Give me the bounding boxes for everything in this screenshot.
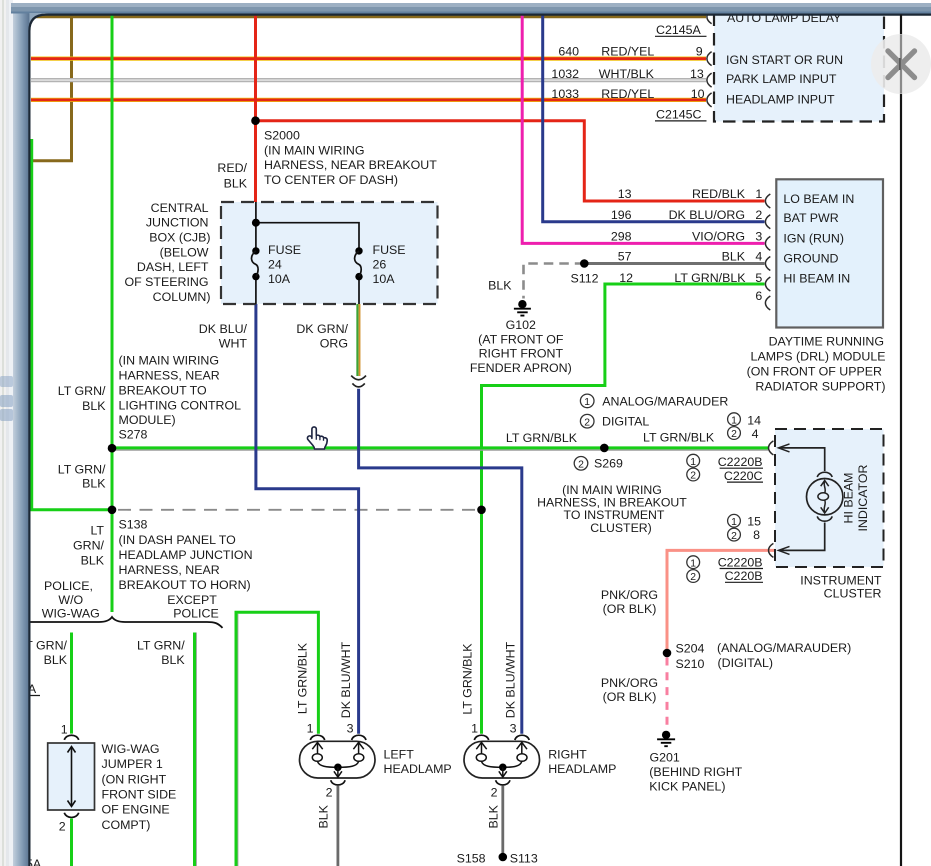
svg-text:BLK: BLK: [82, 476, 106, 490]
svg-text:WIG-WAG: WIG-WAG: [102, 742, 160, 756]
wire LT GRN/BLK wig-wag branch: [70, 633, 73, 866]
svg-text:(IN DASH PANEL TO: (IN DASH PANEL TO: [119, 533, 237, 547]
wire LT GRN/BLK to left headlamp pin 1: [236, 612, 318, 866]
wig-wag jumper pin 2: [59, 813, 79, 834]
svg-text:GRN/: GRN/: [73, 538, 105, 552]
svg-text:C220B: C220B: [725, 569, 763, 583]
svg-text:12: 12: [619, 271, 633, 285]
label WIG-WAG JUMPER note: [102, 742, 177, 832]
svg-text:1: 1: [755, 187, 762, 201]
label S204 S210: [676, 641, 852, 671]
label DK GRN/ORG: [296, 322, 348, 351]
lamp HI BEAM INDICATOR: [807, 472, 843, 521]
svg-text:DK BLU/WHT: DK BLU/WHT: [339, 641, 353, 718]
node S113: [499, 853, 508, 862]
svg-text:C2145A: C2145A: [656, 23, 702, 37]
label S138 note: [119, 518, 253, 593]
label BLK rotated left lamp: [317, 804, 331, 828]
svg-text:(BELOW: (BELOW: [160, 245, 209, 259]
svg-text:LT GRN/BLK: LT GRN/BLK: [461, 643, 475, 715]
ground G102: [514, 300, 531, 316]
label BLK rotated right lamp: [487, 804, 501, 828]
label LT GRN/BLK right of S269: [643, 431, 715, 445]
label circled 2 8: [728, 528, 760, 542]
svg-text:RADIATOR SUPPORT): RADIATOR SUPPORT): [755, 380, 885, 394]
svg-text:C2220B: C2220B: [718, 455, 763, 469]
svg-text:INSTRUMENT: INSTRUMENT: [800, 573, 882, 587]
label circled 1 14: [728, 413, 761, 427]
svg-text:S113: S113: [510, 852, 538, 866]
central junction box CJB: [221, 202, 438, 304]
label DK BLU/WHT rotated left lamp: [339, 641, 353, 718]
background window icon blobs: [0, 376, 13, 421]
label wire 13 RED/BLK 1: [618, 187, 763, 201]
svg-text:13: 13: [618, 187, 632, 201]
svg-text:RED/YEL: RED/YEL: [601, 87, 654, 101]
label EXCEPT POLICE: [167, 593, 219, 621]
label wire 12 LT GRN/BLK 5: [619, 271, 762, 285]
svg-text:6: 6: [755, 289, 762, 303]
svg-text:PNK/ORG: PNK/ORG: [601, 676, 658, 690]
svg-text:2: 2: [578, 460, 584, 471]
cluster entry connector arcs: [769, 441, 774, 558]
svg-text:S138: S138: [119, 518, 148, 532]
svg-text:LT GRN/BLK: LT GRN/BLK: [643, 431, 715, 445]
window frame left bar: [13, 3, 30, 866]
wire PNK/ORG from instrument cluster: [667, 550, 777, 729]
svg-text:2: 2: [690, 572, 696, 583]
left headlamp pin 2 arc: [326, 780, 346, 799]
svg-text:INDICATOR: INDICATOR: [856, 464, 870, 531]
wire BLK right headlamp pin 2: [501, 786, 504, 857]
svg-text:LT GRN/BLK: LT GRN/BLK: [674, 271, 746, 285]
label LT GRN/BLK except police branch: [137, 639, 185, 668]
svg-text:1: 1: [307, 722, 314, 736]
label HI BEAM INDICATOR: [842, 464, 870, 531]
wire 1033 RED/YEL: [31, 98, 706, 102]
label connector 5A upper: [20, 682, 40, 696]
label G201 note: [649, 750, 742, 793]
svg-text:57: 57: [618, 250, 632, 264]
svg-text:COLUMN): COLUMN): [153, 290, 211, 304]
svg-text:(ON RIGHT: (ON RIGHT: [102, 772, 167, 786]
label LEFT HEADLAMP: [384, 748, 452, 777]
label DK BLU/WHT rotated right lamp: [504, 641, 518, 718]
wire DK GRN/ORG below fuse 26: [357, 304, 359, 376]
svg-text:9: 9: [696, 44, 703, 58]
svg-text:BLK: BLK: [81, 553, 105, 567]
svg-text:15: 15: [747, 515, 761, 529]
svg-text:FUSE: FUSE: [373, 243, 406, 257]
label LT GRN/BLK below S278: [58, 463, 106, 491]
svg-text:BLK: BLK: [487, 804, 501, 828]
svg-text:8: 8: [753, 528, 760, 542]
svg-text:(ON FRONT OF UPPER: (ON FRONT OF UPPER: [747, 364, 882, 378]
svg-text:S210: S210: [676, 657, 705, 671]
svg-text:LT GRN/: LT GRN/: [58, 463, 106, 477]
DRL module box: [776, 179, 883, 327]
wire 298 VIO/ORG to DRL pin 3: [522, 14, 764, 243]
svg-text:3: 3: [755, 230, 762, 244]
svg-text:3: 3: [347, 722, 354, 736]
window frame top bar: [11, 3, 931, 14]
svg-text:(IN MAIN WIRING: (IN MAIN WIRING: [264, 143, 365, 157]
svg-text:BLK: BLK: [224, 176, 248, 190]
svg-text:TO CENTER OF DASH): TO CENTER OF DASH): [264, 173, 398, 187]
DRL pin connector arcs: [765, 194, 770, 310]
svg-text:2: 2: [584, 417, 590, 428]
svg-text:DIGITAL: DIGITAL: [602, 415, 649, 429]
svg-text:26: 26: [373, 258, 387, 272]
svg-text:(AT FRONT OF: (AT FRONT OF: [478, 332, 564, 346]
svg-text:HEADLAMP JUNCTION: HEADLAMP JUNCTION: [119, 548, 253, 562]
label pin 6: [755, 289, 762, 303]
svg-text:PARK LAMP INPUT: PARK LAMP INPUT: [726, 72, 837, 86]
svg-text:G102: G102: [506, 318, 536, 332]
svg-text:BLK: BLK: [44, 653, 68, 667]
wire inside cluster to indicator: [779, 444, 825, 555]
connector C2145 box AUTO LAMP DELAY: [714, 14, 884, 122]
svg-text:196: 196: [611, 208, 632, 222]
wire split brace: [24, 617, 223, 628]
svg-text:LT GRN/: LT GRN/: [58, 384, 106, 398]
svg-text:2: 2: [755, 208, 762, 222]
label LT GRN/BLK below S138: [73, 523, 105, 567]
svg-text:LT GRN/BLK: LT GRN/BLK: [296, 642, 310, 714]
wire 12 LT GRN/BLK DRL pin 5 to right headlamp: [482, 284, 765, 734]
svg-text:FRONT SIDE: FRONT SIDE: [102, 788, 177, 802]
svg-text:HARNESS, NEAR BREAKOUT: HARNESS, NEAR BREAKOUT: [264, 158, 437, 172]
wire RED/BLK from S2000 to DRL pin 1: [256, 121, 765, 201]
svg-text:4: 4: [755, 250, 762, 264]
fuse F24: [251, 243, 301, 286]
connector arcs at C2145 box: [707, 10, 712, 107]
svg-text:HEADLAMP: HEADLAMP: [384, 762, 452, 776]
DRL pin labels: [783, 192, 854, 286]
svg-text:LO BEAM IN: LO BEAM IN: [783, 192, 854, 206]
label LT GRN/BLK wig-wag branch: [19, 639, 67, 668]
close button: [871, 34, 931, 94]
svg-text:DASH, LEFT: DASH, LEFT: [137, 260, 209, 274]
svg-text:LT: LT: [90, 523, 104, 537]
svg-text:BLK: BLK: [722, 250, 746, 264]
wire LT GRN/BLK main vertical through S278 S138: [111, 14, 114, 612]
ground G201: [657, 731, 675, 747]
svg-text:WIG-WAG: WIG-WAG: [42, 607, 100, 621]
svg-text:CLUSTER): CLUSTER): [590, 521, 652, 535]
svg-text:10A: 10A: [373, 272, 396, 286]
svg-text:1: 1: [61, 722, 68, 736]
wire LT GRN/BLK S278 horizontal to instrument cluster: [112, 448, 768, 450]
node S204/S210: [663, 649, 672, 658]
svg-text:10A: 10A: [268, 272, 291, 286]
svg-text:(BEHIND RIGHT: (BEHIND RIGHT: [649, 765, 742, 779]
svg-text:FUSE: FUSE: [268, 243, 301, 257]
label wire 1033 RED/YEL 10: [551, 87, 704, 101]
label wire 298 VIO/ORG 3: [611, 230, 763, 244]
label S278 harness note: [119, 354, 242, 442]
component wig-wag jumper 1: [48, 743, 95, 810]
svg-text:BLK: BLK: [488, 279, 512, 293]
label POLICE W/O WIG-WAG: [42, 579, 100, 621]
wire DK BLU/WHT fuse24 to left headlamp pin 3: [256, 304, 359, 734]
svg-text:RIGHT FRONT: RIGHT FRONT: [479, 347, 564, 361]
svg-text:1: 1: [731, 415, 737, 426]
label circled 2 C220B: [687, 569, 763, 583]
svg-text:HARNESS, NEAR: HARNESS, NEAR: [119, 563, 220, 577]
svg-text:ANALOG/MARAUDER: ANALOG/MARAUDER: [602, 394, 728, 408]
svg-text:640: 640: [558, 44, 579, 58]
node S138: [108, 506, 117, 515]
svg-text:EXCEPT: EXCEPT: [167, 593, 217, 607]
svg-text:HEADLAMP INPUT: HEADLAMP INPUT: [726, 93, 835, 107]
node S2000: [251, 116, 260, 125]
wire brown AUTO LAMP DELAY feed: [31, 17, 706, 161]
svg-text:DK BLU/WHT: DK BLU/WHT: [504, 641, 518, 718]
svg-text:HEADLAMP: HEADLAMP: [548, 762, 616, 776]
svg-text:2: 2: [326, 785, 333, 799]
svg-text:WHT/BLK: WHT/BLK: [599, 67, 655, 81]
wire 196 DK BLU/ORG to DRL pin 2: [543, 14, 765, 222]
svg-text:1: 1: [731, 517, 737, 528]
label RIGHT HEADLAMP: [548, 748, 616, 777]
label circled 1 ANALOG/MARAUDER: [580, 394, 728, 408]
svg-text:RED/: RED/: [217, 161, 247, 175]
node S278: [108, 444, 117, 453]
label S158 S113: [457, 852, 538, 866]
wire 640 RED/YEL: [31, 56, 706, 60]
svg-text:HARNESS, NEAR: HARNESS, NEAR: [119, 369, 220, 383]
node S112: [580, 259, 589, 268]
svg-text:JUNCTION: JUNCTION: [146, 216, 209, 230]
label C2145C: [655, 107, 707, 121]
svg-text:(ANALOG/MARAUDER): (ANALOG/MARAUDER): [717, 641, 851, 655]
svg-text:BLK: BLK: [317, 804, 331, 828]
label circled 1 C2220B lower: [687, 555, 763, 569]
inline connector on fuse 26 wire: [351, 376, 366, 387]
svg-text:BOX (CJB): BOX (CJB): [149, 231, 210, 245]
svg-text:LEFT: LEFT: [384, 748, 415, 762]
svg-text:5: 5: [755, 271, 762, 285]
svg-text:2: 2: [690, 471, 696, 482]
svg-text:2: 2: [59, 820, 66, 834]
label RED/BLK: [217, 161, 247, 190]
svg-text:LT GRN/BLK: LT GRN/BLK: [506, 431, 578, 445]
wire 57 BLK to DRL pin 4: [524, 264, 765, 299]
label LT GRN/BLK upper left: [58, 384, 106, 413]
label PNK/ORG lower: [601, 676, 658, 704]
svg-text:13: 13: [690, 67, 704, 81]
label circled 2 4: [728, 427, 759, 441]
label circled 2 C220C: [687, 468, 763, 483]
label S2000: [264, 128, 437, 187]
diagram right border: [900, 15, 902, 866]
wire 1032 WHT/BLK: [31, 78, 706, 82]
label wire 196 DK BLU/ORG 2: [611, 208, 763, 222]
svg-text:W/O: W/O: [58, 593, 83, 607]
svg-text:298: 298: [611, 230, 632, 244]
left headlamp pin labels 1 3: [307, 722, 354, 736]
svg-text:BAT PWR: BAT PWR: [783, 211, 838, 225]
wire inside CJB: [252, 202, 359, 304]
svg-text:RIGHT: RIGHT: [548, 748, 587, 762]
right headlamp connector arcs: [474, 735, 529, 740]
svg-text:S158: S158: [457, 852, 486, 866]
svg-text:BLK: BLK: [161, 653, 185, 667]
svg-text:(OR BLK): (OR BLK): [603, 602, 657, 616]
svg-text:WHT: WHT: [219, 337, 248, 351]
label connector 5A lower: [26, 857, 42, 866]
svg-text:1: 1: [584, 397, 590, 408]
label DK BLU/WHT: [199, 322, 248, 351]
label LT GRN/BLK left of S269: [506, 431, 578, 445]
label wire 1032 WHT/BLK 13: [551, 67, 703, 81]
label INSTRUMENT CLUSTER: [800, 573, 882, 600]
label PNK/ORG upper: [601, 588, 658, 616]
svg-text:2: 2: [491, 785, 498, 799]
svg-text:C2220B: C2220B: [718, 555, 763, 569]
svg-text:1: 1: [471, 722, 478, 736]
svg-text:IGN START OR RUN: IGN START OR RUN: [726, 53, 843, 67]
wire LT GRN/BLK except police branch: [195, 633, 197, 866]
svg-text:RED/YEL: RED/YEL: [601, 44, 654, 58]
svg-text:DK BLU/: DK BLU/: [199, 322, 248, 336]
svg-text:BREAKOUT TO HORN): BREAKOUT TO HORN): [119, 578, 251, 592]
right headlamp pin 2 arc: [491, 780, 510, 799]
fuse F26: [355, 243, 406, 286]
svg-text:S112: S112: [571, 272, 599, 286]
label S112: [571, 272, 599, 286]
svg-text:POLICE: POLICE: [173, 607, 218, 621]
right headlamp pin labels 1 3: [471, 722, 517, 736]
svg-text:VIO/ORG: VIO/ORG: [692, 230, 745, 244]
svg-text:CENTRAL: CENTRAL: [151, 201, 209, 215]
label BLK at G102: [488, 279, 512, 293]
label circled 1 C2220B: [687, 454, 763, 469]
svg-text:S278: S278: [119, 428, 148, 442]
svg-text:GROUND: GROUND: [783, 251, 838, 265]
svg-text:PNK/ORG: PNK/ORG: [601, 588, 658, 602]
svg-text:COMPT): COMPT): [102, 818, 151, 832]
svg-text:(OR BLK): (OR BLK): [603, 690, 657, 704]
label circled 1 15: [728, 514, 761, 528]
label S269 note: [537, 483, 687, 535]
svg-text:2: 2: [731, 531, 737, 542]
svg-text:KICK PANEL): KICK PANEL): [649, 780, 725, 794]
svg-text:FENDER APRON): FENDER APRON): [470, 361, 572, 375]
svg-text:HI BEAM IN: HI BEAM IN: [783, 272, 850, 286]
svg-text:14: 14: [747, 413, 761, 427]
svg-text:OF ENGINE: OF ENGINE: [102, 803, 170, 817]
label wire 640 RED/YEL 9: [558, 44, 702, 58]
svg-text:1: 1: [690, 558, 696, 569]
wire RED/BLK vertical to S2000 and CJB: [254, 14, 257, 203]
label circled 2 S269: [574, 457, 623, 471]
wire BLK left headlamp pin 2: [336, 786, 339, 866]
wire S138 dashed harness line: [118, 506, 486, 515]
label DRL module caption: [747, 334, 886, 393]
svg-text:(DIGITAL): (DIGITAL): [718, 656, 774, 670]
svg-text:3: 3: [510, 722, 517, 736]
svg-text:LT GRN/: LT GRN/: [137, 639, 185, 653]
label AUTO LAMP DELAY inputs: [726, 11, 843, 107]
svg-text:24: 24: [268, 258, 282, 272]
svg-text:S204: S204: [676, 642, 705, 656]
wire LT GRN/BLK left vertical: [32, 139, 108, 510]
svg-text:1032: 1032: [551, 67, 579, 81]
label LT GRN/BLK rotated right lamp: [461, 643, 475, 715]
svg-text:1: 1: [690, 457, 696, 468]
svg-text:C2145C: C2145C: [656, 107, 702, 121]
node S269: [600, 444, 609, 453]
svg-text:BLK: BLK: [82, 399, 106, 413]
wig-wag jumper pin 1: [61, 722, 79, 740]
svg-text:CLUSTER: CLUSTER: [824, 587, 882, 601]
svg-text:IGN (RUN): IGN (RUN): [783, 232, 844, 246]
svg-text:C220C: C220C: [724, 469, 763, 483]
svg-text:DK GRN/: DK GRN/: [296, 322, 348, 336]
svg-text:HI BEAM: HI BEAM: [842, 473, 856, 524]
mouse cursor: [307, 427, 327, 449]
component right headlamp: [464, 741, 540, 778]
svg-text:ORG: ORG: [320, 337, 348, 351]
svg-text:DAYTIME RUNNING: DAYTIME RUNNING: [769, 334, 884, 348]
svg-text:MODULE): MODULE): [119, 413, 176, 427]
svg-text:BREAKOUT TO: BREAKOUT TO: [119, 383, 207, 397]
svg-text:RED/BLK: RED/BLK: [692, 187, 746, 201]
label CENTRAL JUNCTION BOX: [125, 201, 211, 304]
svg-text:S2000: S2000: [264, 128, 300, 142]
svg-text:10: 10: [691, 87, 705, 101]
svg-text:4: 4: [752, 427, 759, 441]
label circled 2 DIGITAL: [580, 414, 649, 428]
label wire 57 BLK 4: [618, 250, 763, 264]
wire DK BLU/WHT to right headlamp pin 3: [359, 389, 522, 734]
component left headlamp: [300, 741, 376, 778]
svg-text:2: 2: [731, 429, 737, 440]
svg-text:1033: 1033: [551, 87, 579, 101]
label C2145A: [655, 23, 707, 37]
svg-text:POLICE,: POLICE,: [44, 579, 93, 593]
label LT GRN/BLK rotated left lamp: [296, 642, 310, 714]
svg-text:G201: G201: [650, 750, 680, 764]
svg-text:DK BLU/ORG: DK BLU/ORG: [669, 208, 745, 222]
svg-text:LIGHTING CONTROL: LIGHTING CONTROL: [119, 398, 242, 412]
svg-text:(IN MAIN WIRING: (IN MAIN WIRING: [119, 354, 220, 368]
svg-text:OF STEERING: OF STEERING: [125, 275, 209, 289]
svg-text:S269: S269: [594, 457, 623, 471]
svg-text:JUMPER 1: JUMPER 1: [102, 757, 163, 771]
svg-text:LAMPS (DRL) MODULE: LAMPS (DRL) MODULE: [751, 350, 886, 364]
label G102 note: [470, 318, 572, 375]
instrument cluster box: [775, 429, 884, 567]
left headlamp connector arcs: [310, 735, 366, 740]
